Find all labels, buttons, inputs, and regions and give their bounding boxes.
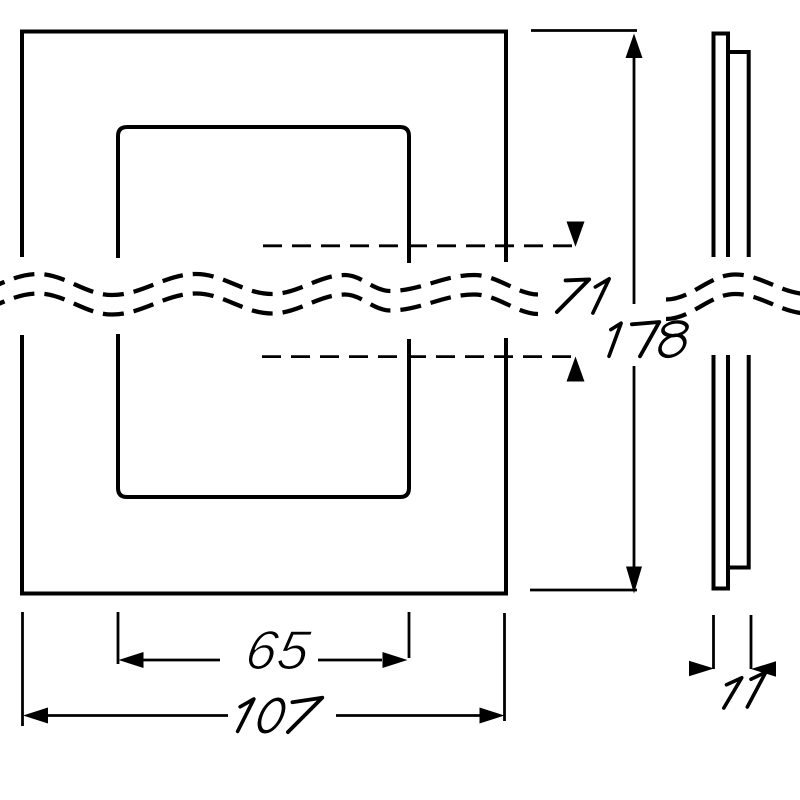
inner opening rounded rect lower part: [118, 334, 409, 497]
dim 178 top extension line: [531, 29, 637, 32]
svg-text:65: 65: [241, 619, 315, 681]
dim 178 digit 1: [609, 323, 621, 356]
break wave left lower dashed line: [0, 294, 538, 317]
break wave left upper dashed line: [0, 274, 538, 297]
dim 178 vertical line lower segment: [633, 366, 636, 569]
inner opening rounded rect upper part: [118, 127, 409, 263]
dim 178 vertical line upper segment: [633, 54, 636, 304]
dim 11 digit 1 (first): [724, 678, 742, 708]
outer frame rect (front view) lower part: [22, 335, 506, 594]
dim 11 left extension line: [712, 615, 715, 669]
dim 65 arrow right: [383, 652, 408, 668]
dim 11 arrow pointing left: [751, 661, 776, 676]
dim 178 bottom extension line: [530, 589, 637, 592]
dim 71 digit 7: [557, 279, 589, 312]
dim 65 line left segment: [142, 659, 220, 662]
dim 107 digit 0: [255, 699, 288, 732]
break wave right upper dashed line (side view): [666, 275, 800, 300]
dim 178 digit 8 lower loop: [657, 335, 688, 356]
dashed extension line upper (dim 71): [263, 244, 578, 247]
dim 107 arrow left: [23, 708, 48, 724]
side view frame profile upper part: [714, 34, 729, 258]
dim 71 digit 1: [593, 279, 609, 313]
dim 107 line right segment: [336, 714, 480, 717]
dim 107 left extension line: [21, 612, 24, 726]
dim 65 arrow left: [119, 652, 144, 668]
dim 11 digit 1 (second): [747, 672, 766, 707]
dim 107 arrow right: [480, 708, 505, 724]
side view frame profile lower part: [714, 355, 729, 589]
dim 107 line left segment: [48, 714, 228, 717]
side view insert profile upper part: [729, 52, 749, 257]
dim 11 arrow pointing right: [689, 661, 714, 676]
dashed extension line lower (dim 71): [262, 355, 578, 358]
dim 65 line right segment: [318, 659, 382, 662]
dim 178 arrow down: [626, 567, 642, 594]
dim 11 right extension line: [750, 615, 753, 669]
dim 178 arrow up: [626, 34, 643, 59]
outer frame rect (front view) upper part: [22, 32, 506, 263]
dim 65 left extension line: [117, 612, 120, 664]
dim 178 digit 8 upper loop: [661, 322, 690, 336]
break wave right lower dashed line (side view): [666, 294, 800, 319]
dim 107 digit 1: [238, 699, 254, 731]
dim 71 arrow down: [567, 222, 585, 247]
dim 65 right extension line: [408, 612, 411, 658]
dim 107 digit 7: [288, 698, 322, 732]
dim 71 arrow up: [567, 357, 585, 382]
dim 107 right extension line: [503, 613, 506, 721]
dim 178 digit 7: [632, 322, 659, 356]
side view insert profile lower part: [729, 355, 749, 568]
